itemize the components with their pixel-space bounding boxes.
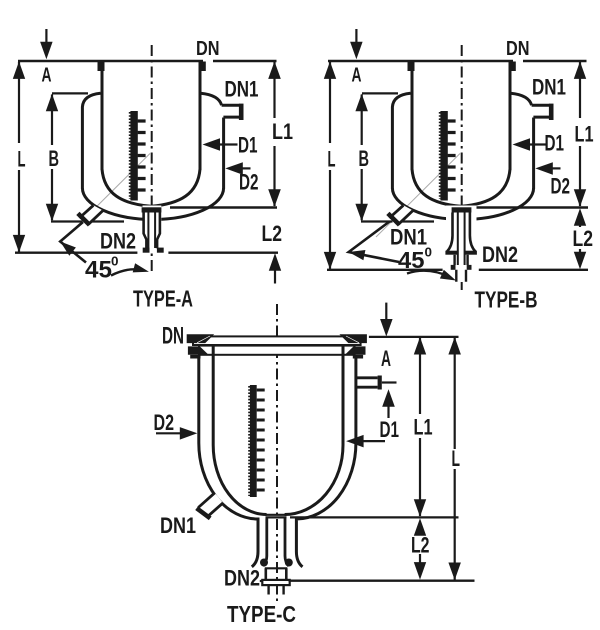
- TYPE-B vessel graduated scale bar: [440, 111, 447, 201]
- TYPE-A vessel inner wall left: [101, 61, 104, 170]
- TYPE-A vessel inner wall right: [199, 61, 202, 170]
- TYPE-B outlet bore lines: [458, 213, 465, 266]
- svg-text:L2: L2: [262, 221, 283, 246]
- svg-text:L1: L1: [414, 415, 433, 440]
- TYPE-A B-dim bottom ref line: [51, 220, 124, 222]
- svg-text:D2: D2: [551, 174, 571, 199]
- TYPE-A vessel outer bottom curve: [82, 188, 223, 219]
- svg-text:0: 0: [111, 254, 119, 269]
- TYPE-A vessel DN1 nozzle end cap: [239, 104, 244, 120]
- svg-text:A: A: [42, 65, 52, 87]
- svg-text:DN: DN: [162, 323, 184, 350]
- TYPE-C DN1 nozzle end cap: [197, 508, 211, 518]
- svg-text:B: B: [49, 146, 60, 171]
- svg-text:DN1: DN1: [532, 75, 566, 100]
- TYPE-C outlet lip flange: [262, 580, 289, 585]
- svg-text:A: A: [352, 65, 362, 87]
- svg-text:DN: DN: [506, 38, 530, 60]
- svg-text:L: L: [328, 147, 336, 172]
- svg-text:TYPE-B: TYPE-B: [475, 287, 538, 313]
- TYPE-B DN1 nozzle end cap: [388, 213, 400, 225]
- TYPE-B vessel rim flange line: [328, 60, 587, 63]
- TYPE-A dim L1 line: [273, 62, 275, 206]
- TYPE-C A up arrow: [382, 389, 395, 407]
- svg-text:L1: L1: [272, 119, 293, 144]
- TYPE-A vessel rim flange line: [18, 60, 277, 63]
- TYPE-A dim B line: [51, 95, 53, 221]
- svg-text:L1: L1: [575, 122, 594, 147]
- TYPE-C centerline: [276, 304, 278, 603]
- TYPE-A vessel thin 45-degree nozzle axis line: [66, 154, 150, 238]
- svg-text:DN1: DN1: [225, 77, 259, 102]
- TYPE-C inner bottom left curve: [213, 445, 266, 515]
- TYPE-A vessel centerline: [151, 45, 153, 273]
- TYPE-C vessel walls: [199, 346, 356, 445]
- TYPE-B vessel right neck clamp mark: [509, 62, 516, 72]
- TYPE-C DN1 diagonal nozzle: [198, 493, 223, 516]
- TYPE-B vessel inner wall right: [509, 61, 512, 170]
- svg-text:L: L: [452, 446, 461, 471]
- TYPE-B dim L line: [329, 62, 331, 269]
- TYPE-B bell rim bars: [445, 251, 457, 255]
- TYPE-B base line y269.8: [327, 269, 588, 271]
- TYPE-C base line y580.7: [289, 580, 475, 582]
- TYPE-C bottom outlet: [266, 515, 287, 518]
- TYPE-B bottom outlet with conical joint: [446, 206, 477, 283]
- TYPE-A vessel inner bottom curve: [102, 169, 200, 206]
- TYPE-B vessel outer bottom curve: [392, 188, 533, 220]
- svg-text:D1: D1: [238, 133, 258, 158]
- TYPE-C outer bottom left curve: [199, 443, 258, 567]
- TYPE-B vessel centerline: [461, 45, 463, 290]
- TYPE-A vessel graduated scale bar: [130, 111, 137, 201]
- TYPE-B dim B line: [361, 95, 363, 221]
- svg-text:D2: D2: [239, 170, 259, 195]
- TYPE-C outlet socket: [265, 567, 288, 569]
- svg-text:DN: DN: [196, 38, 220, 60]
- TYPE-B B-dim bottom ref line: [361, 220, 434, 222]
- TYPE-A outlet tube walls: [144, 213, 160, 249]
- TYPE-B 45deg leader: [349, 222, 399, 263]
- TYPE-C outlet stub: [269, 585, 284, 594]
- TYPE-A vessel scale tick marks: [138, 121, 146, 190]
- TYPE-C flange lower clamp left: [188, 346, 209, 354]
- svg-text:DN2: DN2: [482, 242, 518, 267]
- TYPE-C flange lower clamp right: [345, 346, 366, 354]
- TYPE-A B-dim top ref line: [52, 92, 88, 94]
- TYPE-B vessel D1 arrow: [527, 143, 548, 145]
- svg-text:L: L: [18, 147, 26, 172]
- TYPE-B dim L2 arrows: [574, 208, 586, 226]
- TYPE-C A nozzle: [356, 378, 378, 387]
- TYPE-C A ref line: [382, 381, 397, 383]
- TYPE-C mid ref line y517: [290, 516, 459, 518]
- TYPE-B vessel inner wall left: [411, 61, 414, 170]
- TYPE-A dim L2 arrow: [269, 253, 281, 271]
- TYPE-B lower tube walls: [455, 255, 468, 265]
- svg-text:TYPE-A: TYPE-A: [133, 286, 193, 312]
- TYPE-C D1 arrow: [350, 440, 385, 442]
- TYPE-C flange lid plate: [193, 336, 361, 345]
- TYPE-C D2 arrow: [156, 432, 193, 434]
- svg-text:B: B: [359, 146, 370, 171]
- svg-text:L2: L2: [573, 226, 594, 251]
- TYPE-B vessel scale tick marks: [448, 121, 456, 190]
- TYPE-C top ref line: [369, 336, 459, 338]
- TYPE-C dim L1 line: [419, 338, 421, 517]
- TYPE-A bottom ref line y207: [170, 206, 277, 208]
- TYPE-B vessel left neck clamp mark: [408, 62, 415, 72]
- TYPE-A base line y252.7: [15, 251, 278, 253]
- TYPE-A vessel outer wall right with DN1 nozzle: [201, 93, 240, 188]
- TYPE-C flange lower ring: [199, 346, 355, 355]
- TYPE-B bottom ref line y207: [473, 206, 588, 208]
- TYPE-B vessel D2 arrow: [550, 167, 561, 169]
- TYPE-B vessel DN1 nozzle end cap: [549, 104, 554, 120]
- svg-text:DN1: DN1: [160, 513, 196, 538]
- TYPE-C graduated scale bar: [250, 385, 257, 497]
- TYPE-C outlet bell rim blobs: [260, 559, 268, 567]
- TYPE-B outlet tube and bell: [447, 213, 476, 253]
- TYPE-C outlet tube walls: [263, 519, 289, 567]
- TYPE-C flange top clamp left: [187, 334, 215, 343]
- TYPE-C scale tick marks: [257, 390, 265, 490]
- TYPE-A dim A arrow: [45, 29, 47, 43]
- svg-text:0: 0: [425, 245, 433, 260]
- TYPE-B vessel outer wall right with DN1 nozzle: [511, 93, 550, 188]
- TYPE-A 45deg arc arrow: [111, 269, 143, 275]
- TYPE-C top down arrow: [385, 303, 387, 320]
- TYPE-A dim L line: [18, 62, 20, 252]
- TYPE-B vessel inner bottom curve: [412, 169, 510, 206]
- TYPE-B outlet flange band: [452, 207, 472, 212]
- TYPE-C dim L2 arrows: [414, 518, 426, 536]
- svg-text:DN2: DN2: [100, 229, 136, 254]
- TYPE-A 45deg leader: [60, 222, 86, 263]
- TYPE-A vessel right neck clamp mark: [199, 62, 206, 72]
- TYPE-A DN2 nozzle end cap: [78, 213, 90, 225]
- TYPE-B lower flange feet: [451, 265, 456, 270]
- TYPE-A vessel D2 arrow: [240, 167, 251, 169]
- svg-text:DN2: DN2: [224, 566, 260, 591]
- TYPE-B vessel outer wall left shoulder: [392, 93, 410, 188]
- TYPE-C outer bottom right curve: [296, 443, 356, 567]
- TYPE-A outlet flange band: [142, 207, 162, 212]
- TYPE-B DN1 diagonal nozzle: [389, 205, 413, 224]
- TYPE-C DN2 leader stub: [260, 580, 263, 582]
- TYPE-A bottom outlet valve: [143, 206, 162, 252]
- svg-text:D2: D2: [154, 410, 175, 435]
- svg-text:TYPE-C: TYPE-C: [227, 601, 296, 627]
- TYPE-C dim L line: [454, 338, 456, 580]
- svg-text:45: 45: [398, 247, 425, 273]
- svg-text:L2: L2: [411, 533, 430, 558]
- TYPE-B outlet stub: [456, 270, 466, 282]
- TYPE-C flange top clamp right: [339, 334, 367, 343]
- svg-text:D1: D1: [380, 417, 400, 442]
- TYPE-B 45deg arc arrow: [407, 271, 450, 277]
- svg-text:A: A: [381, 346, 391, 371]
- svg-text:D1: D1: [545, 131, 565, 156]
- TYPE-B B-dim top ref line: [362, 92, 398, 94]
- TYPE-B dim L1 line: [579, 62, 581, 206]
- TYPE-A vessel outer wall left shoulder: [82, 93, 100, 188]
- TYPE-C flange tabs: [190, 355, 200, 359]
- TYPE-B vessel thin 45-degree nozzle axis line: [376, 154, 460, 238]
- svg-text:DN1: DN1: [390, 225, 427, 250]
- TYPE-B dim A arrow: [355, 29, 357, 43]
- TYPE-A DN2 diagonal nozzle: [79, 205, 103, 224]
- TYPE-A outlet tube bore: [148, 213, 155, 249]
- TYPE-A vessel left neck clamp mark: [98, 62, 105, 72]
- svg-text:45: 45: [85, 257, 112, 284]
- TYPE-A vessel D1 arrow: [217, 143, 238, 145]
- TYPE-C inner bottom right curve: [285, 445, 343, 515]
- TYPE-A outlet feet: [143, 248, 150, 253]
